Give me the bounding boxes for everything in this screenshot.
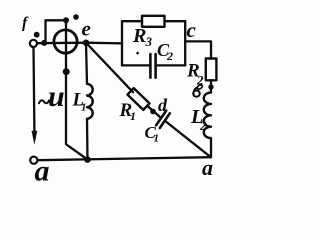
svg-text:c: c bbox=[187, 18, 197, 42]
svg-text:1: 1 bbox=[154, 133, 160, 145]
svg-text:a: a bbox=[35, 155, 50, 188]
svg-text:2: 2 bbox=[199, 118, 207, 133]
svg-text:3: 3 bbox=[145, 34, 153, 49]
svg-text:R: R bbox=[132, 25, 146, 47]
svg-text:e: e bbox=[82, 17, 91, 41]
svg-text:1: 1 bbox=[130, 109, 136, 123]
svg-text:a: a bbox=[202, 155, 213, 180]
svg-text:1: 1 bbox=[81, 102, 87, 114]
svg-text:d: d bbox=[158, 95, 168, 115]
svg-text:u: u bbox=[48, 80, 65, 113]
svg-text:2: 2 bbox=[166, 49, 173, 63]
